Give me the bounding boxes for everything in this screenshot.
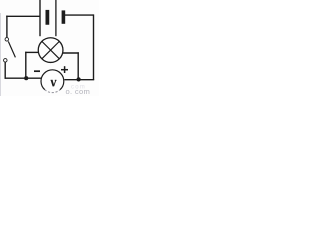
voltmeter plus terminal label vertical — [64, 66, 66, 73]
battery B1 short thick plate (left cell) — [46, 10, 50, 25]
wire bottom rail left — [5, 77, 42, 79]
voltmeter V1 circle faded bottom arc — [45, 90, 60, 93]
wire left vertical upper (rail corner down to switch) — [6, 16, 8, 38]
switch S1 blade (open) — [8, 41, 15, 57]
switch S1 bottom contact circle — [4, 59, 8, 63]
voltmeter V1 circle main arc — [41, 70, 64, 90]
battery B1 long plate (left cell) — [39, 0, 41, 36]
voltmeter plus terminal label horizontal — [61, 69, 68, 71]
voltmeter minus terminal label — [34, 70, 40, 72]
battery B1 short thick plate (right cell) — [62, 10, 66, 23]
wire lamp right branch vertical — [77, 52, 79, 79]
scan artifact faint left edge line — [0, 13, 1, 96]
wire lamp right lead — [63, 52, 79, 54]
wire lamp left branch vertical — [25, 52, 27, 78]
node junction dot right — [76, 77, 80, 81]
lamp L1 cross diagonal 1 — [42, 41, 59, 58]
wire lamp left lead — [25, 51, 38, 53]
wire top rail left — [6, 15, 40, 17]
wire bottom rail right — [64, 79, 94, 81]
wire top rail right — [65, 14, 94, 16]
svg-text:com: com — [71, 85, 86, 91]
node junction dot left — [24, 76, 28, 80]
lamp L1 cross diagonal 2 — [42, 41, 59, 58]
wire left vertical lower (switch to bottom rail) — [4, 62, 6, 79]
switch S1 top contact circle — [5, 38, 9, 42]
battery B1 long plate (right cell) — [55, 0, 57, 36]
lamp L1 circle — [38, 38, 63, 63]
voltmeter V1 letter V — [51, 80, 57, 86]
wire right vertical — [93, 14, 95, 79]
